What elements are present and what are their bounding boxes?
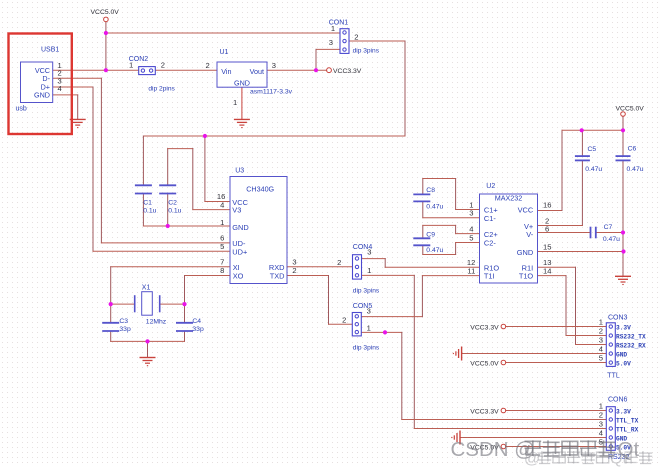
svg-text:3: 3 — [367, 248, 371, 257]
wire U2 VCC pin16 to 5V rail — [538, 210, 563, 212]
svg-text:4: 4 — [220, 200, 224, 209]
svg-text:VCC3.3V: VCC3.3V — [470, 325, 499, 332]
svg-text:RXD: RXD — [269, 263, 285, 272]
svg-text:C7: C7 — [604, 224, 613, 231]
junction VCC rail / C1 — [203, 134, 207, 138]
wire C1 bottom lead to GND rail — [142, 194, 144, 227]
wire USB1 pin1 to VCC junction — [53, 69, 106, 71]
wire U1 Vout to VCC3.3V node — [267, 69, 327, 71]
junction crystal left / C3 — [109, 302, 113, 306]
svg-text:C5: C5 — [588, 146, 597, 153]
svg-text:Vin: Vin — [221, 67, 231, 76]
wire USB1 pin4 GND to ground — [53, 94, 78, 96]
wire C5 bottom lead to U2 V+ pin2 — [581, 160, 583, 225]
wire C1 top lead — [142, 136, 144, 185]
svg-text:dip 3pins: dip 3pins — [353, 287, 380, 294]
junction GND rail / C2 — [166, 224, 170, 228]
wire C4 bottom lead — [184, 331, 186, 341]
wire C9 top lead to U2 C2+ pin4 — [422, 225, 424, 238]
wire crystal left lead — [111, 303, 135, 305]
wire USB1 pin3 D+ to U3 UD+ pin5 — [53, 86, 93, 88]
junction 5V rail / C6 top — [621, 128, 625, 132]
svg-text:UD+: UD+ — [232, 248, 247, 257]
junction 5V rail / C5 — [580, 128, 584, 132]
svg-text:U1: U1 — [220, 49, 229, 56]
wire C8 bottom lead to U2 C1- pin3 — [422, 201, 424, 217]
svg-text:GND: GND — [34, 91, 50, 100]
svg-text:VCC5.0V: VCC5.0V — [616, 106, 645, 113]
svg-text:CON3: CON3 — [608, 314, 628, 321]
svg-text:3: 3 — [272, 61, 276, 70]
svg-text:C2-: C2- — [484, 238, 496, 247]
svg-text:8: 8 — [220, 266, 224, 275]
power port VCC3.3V near CON1 — [327, 68, 332, 73]
wire USB1 pin2 D- to U3 UD- pin6 — [53, 77, 102, 79]
svg-text:6: 6 — [545, 224, 549, 233]
svg-text:0.47u: 0.47u — [585, 166, 602, 173]
wire VCC5.0V right vertical to C6 top — [622, 116, 624, 156]
crystal X1 12Mhz — [134, 296, 136, 312]
wire C7 right plate to ground rail — [596, 232, 623, 234]
svg-text:C9: C9 — [426, 232, 435, 239]
connector CON2 dip 2pins — [139, 67, 156, 75]
svg-text:0.1u: 0.1u — [168, 208, 181, 215]
power port VCC5.0V top — [104, 17, 109, 22]
svg-text:usb: usb — [16, 106, 27, 113]
wire C6 bottom lead down ground rail — [622, 160, 624, 276]
junction VCC3.3V node — [314, 68, 318, 72]
junction VCC5.0V rail — [104, 31, 108, 35]
svg-text:2: 2 — [337, 258, 341, 267]
wire GND rail to U3 GND pin1 — [143, 225, 230, 227]
svg-text:2: 2 — [599, 326, 603, 335]
power port VCC5.0V at CON6 pin5 — [501, 444, 506, 449]
wire VCC3.3V to CON6 pin1 — [506, 410, 607, 412]
wire U3 XO pin8 to crystal — [185, 275, 231, 277]
wire U2 T1O pin14 to CON3 pin2 RS232_TX — [538, 275, 567, 277]
svg-text:VCC3.3V: VCC3.3V — [333, 68, 362, 75]
wire VCC5.0V to CON6 pin5 — [506, 446, 607, 448]
svg-text:CSDN @: CSDN @ — [451, 438, 536, 461]
wire crystal right lead — [160, 303, 185, 305]
junction GND pin15 / ground rail — [621, 249, 625, 253]
wire CON4 pin1 to CON6 pin3 TTL_RX — [362, 274, 415, 276]
svg-text:1: 1 — [129, 60, 133, 69]
svg-text:dip 3pins: dip 3pins — [353, 344, 380, 351]
svg-text:2: 2 — [161, 60, 165, 69]
capacitor C2 — [159, 184, 176, 186]
power port VCC5.0V right — [621, 112, 626, 117]
connector CON3 — [606, 323, 615, 367]
svg-text:VCC3.3V: VCC3.3V — [470, 409, 499, 416]
wire CON2 pin2 to U1 Vin — [155, 69, 217, 71]
svg-text:XI: XI — [233, 263, 240, 272]
capacitor C5 — [575, 155, 590, 157]
svg-text:Qt: Qt — [610, 451, 627, 467]
svg-text:4: 4 — [58, 84, 62, 93]
svg-text:1: 1 — [367, 323, 371, 332]
svg-text:T1O: T1O — [519, 272, 534, 281]
power port VCC3.3V at CON6 pin1 — [501, 408, 506, 413]
junction USB pin1 / CON2 — [104, 68, 108, 72]
wire C8 top lead to U2 C1+ pin1 — [422, 179, 424, 195]
ground at U1 GND — [234, 118, 250, 120]
svg-text:0.47u: 0.47u — [426, 203, 443, 210]
svg-text:RS232_RX: RS232_RX — [616, 342, 646, 349]
wire VCC5.0V rail to CON1 pin1 — [106, 32, 340, 34]
svg-text:V-: V- — [526, 230, 534, 239]
wire CON5 pin3 to U2 T1I pin11 — [361, 316, 423, 318]
svg-text:3: 3 — [292, 258, 296, 267]
svg-text:2: 2 — [206, 61, 210, 70]
svg-text:4: 4 — [599, 344, 603, 353]
wire C4 top lead — [184, 304, 186, 323]
ground at CON3 pin4 — [461, 347, 463, 361]
svg-text:TXD: TXD — [270, 272, 285, 281]
wire U1 GND pin1 to ground — [241, 87, 243, 119]
svg-text:RS232_TX: RS232_TX — [616, 333, 646, 340]
wire ground stub of crystal rail — [147, 341, 149, 357]
svg-text:U3: U3 — [235, 168, 244, 175]
svg-text:0.1u: 0.1u — [143, 208, 156, 215]
svg-text:dip 3pins: dip 3pins — [353, 48, 380, 55]
svg-text:2: 2 — [342, 315, 346, 324]
svg-text:7: 7 — [220, 258, 224, 267]
svg-text:VCC5.0V: VCC5.0V — [470, 361, 499, 368]
connector CON1 dip 3pins — [340, 29, 349, 54]
watermark username glyphs — [525, 440, 542, 456]
regulator U1 asm1117-3.3v — [217, 62, 267, 87]
svg-text:2: 2 — [354, 33, 358, 42]
wire C9 bottom lead to U2 C2- pin5 — [422, 245, 424, 254]
highlight box around USB1 — [9, 34, 72, 135]
svg-text:VCC: VCC — [518, 206, 534, 215]
power port VCC5.0V at CON3 pin5 — [501, 360, 506, 365]
wire CON5 pin1 to CON6 pin2 TTL_TX — [361, 331, 402, 333]
wire crystal ground rail — [111, 340, 185, 342]
svg-text:4: 4 — [599, 428, 603, 437]
svg-text:1: 1 — [331, 24, 335, 33]
svg-text:GND: GND — [616, 351, 627, 358]
svg-text:GND: GND — [232, 223, 248, 232]
wire VCC5.0V to CON3 pin5 — [506, 362, 607, 364]
svg-text:14: 14 — [543, 266, 551, 275]
svg-text:2: 2 — [292, 266, 296, 275]
svg-text:1: 1 — [233, 98, 237, 107]
ground at MAX232 rail — [615, 275, 631, 277]
wire U2 V- pin6 to C7 — [538, 232, 591, 234]
svg-text:X1: X1 — [142, 284, 151, 291]
svg-text:5.0V: 5.0V — [616, 360, 631, 367]
wire C5 top lead — [581, 130, 583, 156]
svg-text:TTL_RX: TTL_RX — [616, 426, 639, 433]
svg-text:11: 11 — [467, 266, 475, 275]
wire VCC3.3V to CON3 pin1 — [506, 326, 607, 328]
svg-text:5: 5 — [469, 233, 473, 242]
junction CON5 pin1 wire — [383, 330, 387, 334]
ground at crystal caps — [140, 357, 156, 359]
svg-text:TTL: TTL — [607, 372, 620, 379]
wire ground to CON6 pin4 — [460, 437, 606, 439]
svg-text:U2: U2 — [486, 183, 495, 190]
wire C2 bottom lead — [167, 194, 169, 227]
svg-text:3: 3 — [469, 209, 473, 218]
junction V- / C7 / ground rail — [621, 230, 625, 234]
svg-text:TTL_TX: TTL_TX — [616, 417, 639, 424]
wire VCC rail tap to U3 VCC pin16 — [204, 136, 206, 202]
wire U3 RXD pin3 to CON4 pin2 — [287, 266, 353, 268]
capacitor C7 — [590, 227, 592, 239]
svg-text:MAX232: MAX232 — [495, 193, 523, 202]
svg-text:XO: XO — [233, 272, 244, 281]
svg-text:5: 5 — [220, 242, 224, 251]
wire CON1 pin2 down to CH340 VCC rail — [349, 40, 406, 42]
svg-text:C1-: C1- — [484, 214, 496, 223]
svg-text:C8: C8 — [426, 187, 435, 194]
wire C3 top lead — [110, 304, 112, 323]
svg-text:33p: 33p — [119, 326, 131, 333]
svg-text:2: 2 — [599, 410, 603, 419]
svg-text:CON6: CON6 — [608, 397, 628, 404]
capacitor C3 — [102, 322, 119, 324]
wire U3 TXD pin2 to CON5 pin2 — [287, 275, 329, 277]
svg-text:3.3V: 3.3V — [616, 324, 631, 331]
svg-text:asm1117-3.3v: asm1117-3.3v — [250, 88, 293, 95]
wire U2 R1I pin13 to CON3 pin3 RS232_RX — [538, 266, 576, 268]
wire CON4 pin3 to U2 R1O pin12 — [362, 258, 386, 260]
svg-text:3.3V: 3.3V — [616, 408, 631, 415]
svg-text:1: 1 — [599, 401, 603, 410]
svg-text:Vout: Vout — [250, 67, 264, 76]
wire CON1 pin3 to VCC3.3V node — [316, 48, 340, 50]
connector CON5 dip 3pins — [352, 313, 361, 336]
svg-text:5: 5 — [599, 353, 603, 362]
svg-text:0.47u: 0.47u — [627, 166, 644, 173]
svg-text:GND: GND — [517, 248, 533, 257]
svg-text:V3: V3 — [232, 206, 241, 215]
wire C2 top lead to U3 V3 pin4 — [167, 149, 169, 186]
capacitor C9 — [413, 237, 430, 239]
wire VCC junction to CON2 pin1 — [106, 69, 139, 71]
wire U2 GND pin15 to ground rail — [538, 251, 624, 253]
wire C3 bottom lead — [110, 331, 112, 341]
wire U3 XI pin7 to crystal — [111, 266, 230, 268]
capacitor C4 — [176, 322, 193, 324]
svg-text:3: 3 — [329, 38, 333, 47]
capacitor C6 — [616, 155, 631, 157]
IC U2 MAX232 body — [480, 194, 538, 283]
svg-text:3: 3 — [367, 307, 371, 316]
capacitor C1 — [135, 184, 152, 186]
svg-text:C1: C1 — [143, 200, 152, 207]
svg-text:4: 4 — [469, 224, 473, 233]
wire ground to CON3 pin4 — [462, 353, 607, 355]
junction crystal right / C4 — [182, 302, 186, 306]
svg-text:C4: C4 — [192, 318, 201, 325]
svg-text:0.47u: 0.47u — [426, 247, 443, 254]
ground at CON6 pin4 — [459, 431, 461, 445]
capacitor C8 — [413, 193, 430, 195]
svg-text:C3: C3 — [119, 318, 128, 325]
svg-text:0.47u: 0.47u — [603, 236, 620, 243]
junction crystal ground rail — [145, 339, 149, 343]
ground at USB1 GND — [70, 118, 86, 120]
svg-text:C6: C6 — [628, 145, 637, 152]
svg-text:33p: 33p — [192, 326, 204, 333]
wire VCC5.0V vertical to junction — [105, 22, 107, 70]
connector USB1 body — [21, 62, 53, 103]
svg-text:GND: GND — [234, 78, 250, 87]
power port VCC3.3V at CON3 pin1 — [501, 324, 506, 329]
svg-text:16: 16 — [543, 200, 551, 209]
connector CON6 — [606, 407, 615, 451]
svg-text:3: 3 — [599, 335, 603, 344]
svg-text:3: 3 — [599, 419, 603, 428]
svg-text:@: @ — [524, 451, 540, 467]
svg-text:12Mhz: 12Mhz — [146, 319, 167, 326]
svg-text:USB1: USB1 — [41, 47, 59, 54]
svg-text:CH340G: CH340G — [246, 184, 274, 193]
svg-text:1: 1 — [599, 317, 603, 326]
svg-text:15: 15 — [543, 242, 551, 251]
svg-text:C2: C2 — [168, 200, 177, 207]
svg-text:dip 2pins: dip 2pins — [148, 86, 175, 93]
svg-text:1: 1 — [220, 218, 224, 227]
svg-text:VCC5.0V: VCC5.0V — [91, 9, 120, 16]
svg-text:T1I: T1I — [484, 272, 495, 281]
svg-text:1: 1 — [367, 266, 371, 275]
connector CON4 dip 3pins — [353, 255, 362, 279]
IC U3 CH340G body — [230, 177, 287, 284]
